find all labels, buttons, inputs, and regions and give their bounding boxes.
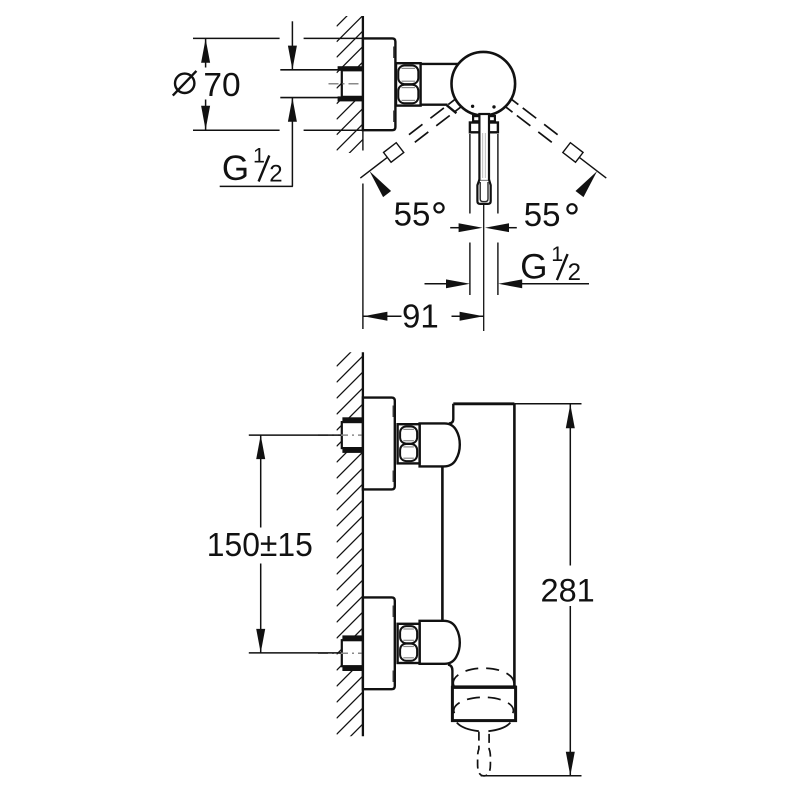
svg-text:91: 91	[402, 297, 439, 334]
svg-text:2: 2	[269, 161, 282, 188]
svg-text:150±15: 150±15	[207, 527, 313, 564]
svg-text:G: G	[222, 149, 249, 188]
svg-text:1: 1	[253, 144, 265, 168]
svg-text:1: 1	[551, 242, 563, 266]
svg-text:70: 70	[203, 67, 240, 104]
svg-text:55: 55	[524, 196, 561, 233]
svg-text:G: G	[520, 248, 547, 287]
svg-text:281: 281	[541, 573, 595, 609]
svg-text:55: 55	[394, 196, 431, 233]
svg-text:2: 2	[568, 259, 581, 286]
